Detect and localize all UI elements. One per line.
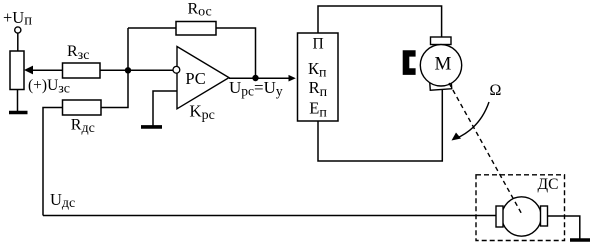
- op-amp U1 triangle: [177, 47, 229, 109]
- ground at tacho: [570, 238, 590, 242]
- tacho right brush: [541, 206, 548, 226]
- motor M bottom brush: [430, 81, 452, 90]
- wire node A to op-amp input: [128, 69, 173, 71]
- wire potentiometer to ground: [17, 90, 19, 112]
- node A junction dot: [125, 67, 131, 73]
- tacho left brush: [496, 206, 503, 227]
- resistor Rzs body: [63, 63, 101, 78]
- wire op-amp output: [229, 77, 289, 79]
- ground under op-amp: [141, 125, 162, 129]
- wire terminal to potentiometer: [17, 33, 19, 51]
- motor stator magnet bracket: [403, 50, 416, 75]
- ground under potentiometer: [9, 111, 28, 115]
- rotation arrow arc: [456, 102, 489, 139]
- wire Rzs to node A: [100, 69, 128, 71]
- wire feedback top left: [128, 27, 176, 29]
- svg-text:П: П: [313, 36, 324, 53]
- wire Ros to output node: [216, 28, 256, 78]
- output node dot: [252, 75, 258, 81]
- wire converter bottom to motor: [318, 90, 442, 162]
- rotation arrowhead: [452, 133, 462, 141]
- dashed shaft line motor to tacho: [449, 83, 523, 216]
- converter block P rectangle: [298, 33, 339, 121]
- potentiometer RP body: [10, 51, 24, 90]
- svg-text:РС: РС: [185, 69, 205, 88]
- potentiometer wiper arrow: [24, 66, 33, 75]
- wire wiper to Rzs: [33, 69, 63, 71]
- tacho circle: [502, 197, 541, 236]
- svg-text:М: М: [435, 53, 452, 74]
- wire tacho to ground: [548, 216, 580, 239]
- motor M circle: [420, 45, 461, 86]
- wire converter top to motor: [318, 6, 442, 37]
- wire Rds right up to node A: [101, 28, 128, 108]
- motor M top brush: [431, 37, 452, 45]
- wire second input: [153, 91, 177, 126]
- wire feedback bottom Uds: [43, 215, 496, 217]
- svg-text:Uрс=Uу: Uрс=Uу: [229, 78, 283, 99]
- wire Rds left to feedback drop: [43, 108, 63, 216]
- node +Un terminal circle: [15, 27, 21, 33]
- tacho DS dashed box: [476, 175, 565, 241]
- op-amp input bubble: [173, 66, 180, 73]
- arrow into converter: [289, 75, 296, 82]
- resistor Rds body: [63, 100, 102, 115]
- svg-text:Ω: Ω: [490, 82, 502, 99]
- svg-text:ДС: ДС: [538, 176, 559, 193]
- resistor Ros body: [176, 22, 216, 36]
